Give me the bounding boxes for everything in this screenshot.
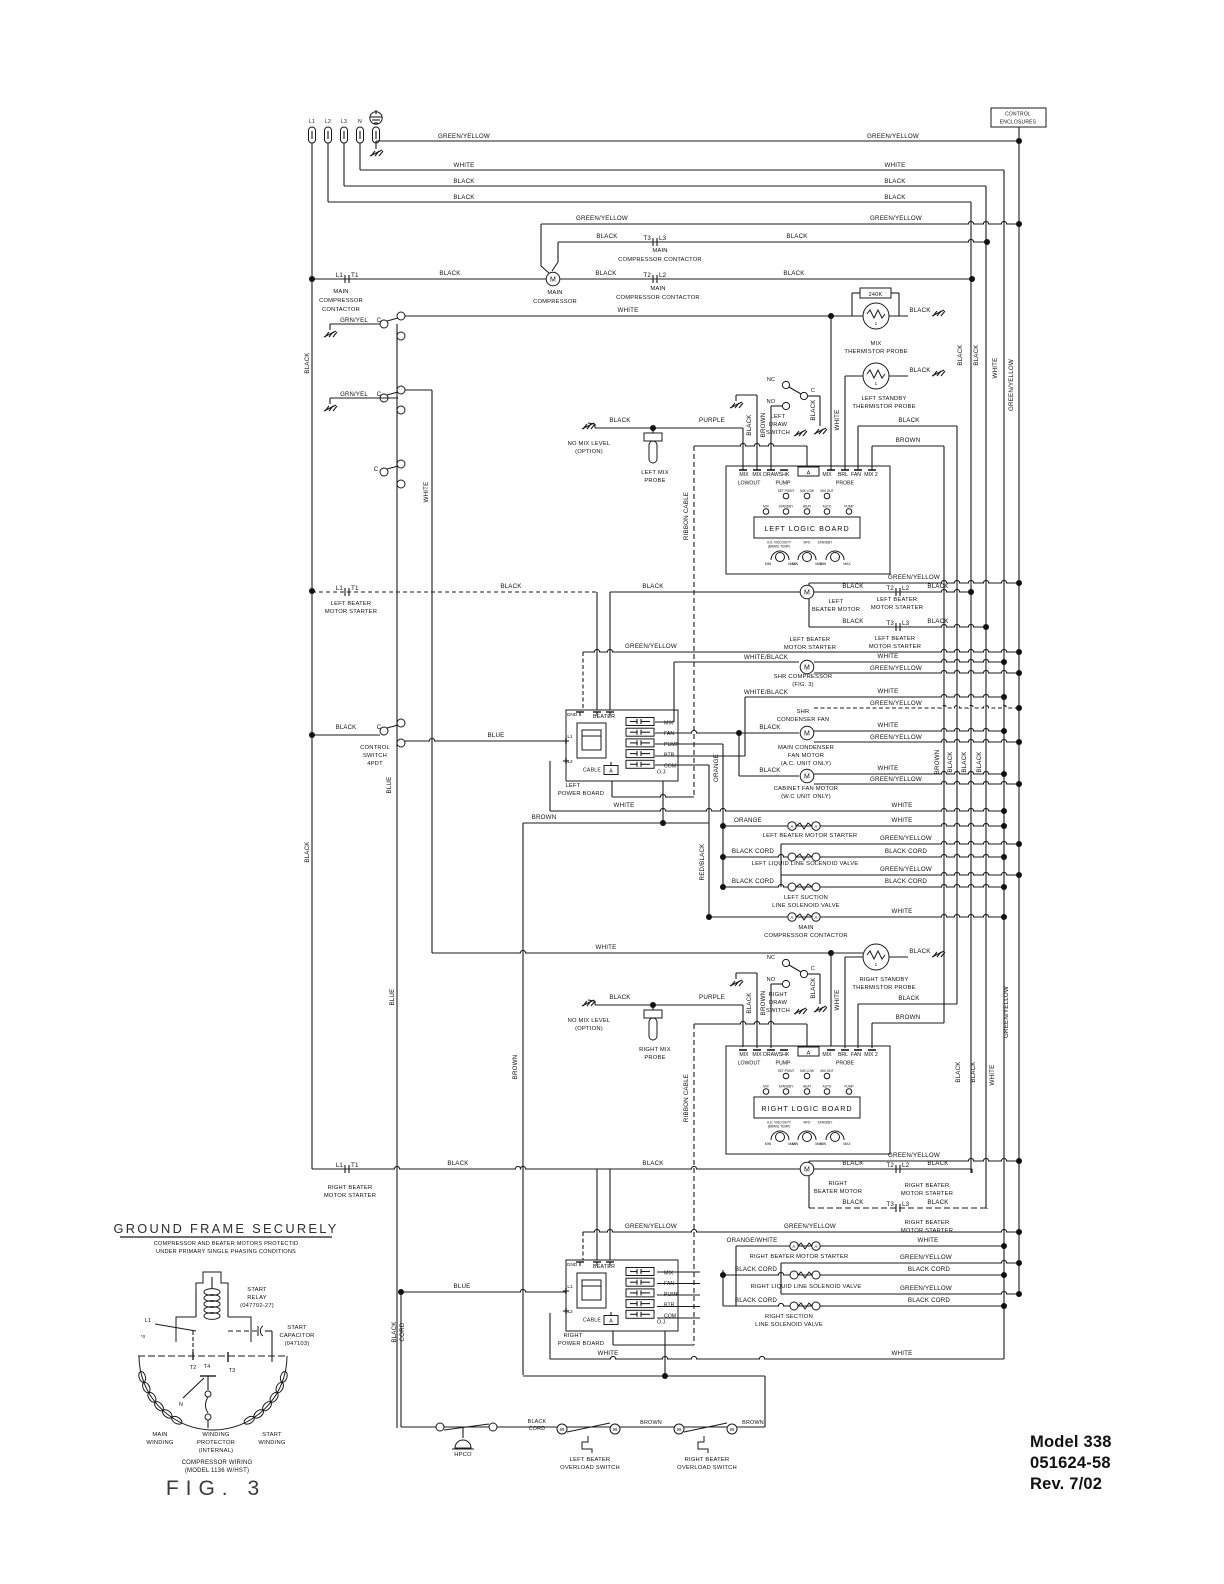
- svg-text:M: M: [804, 665, 810, 672]
- svg-text:T2: T2: [190, 1365, 197, 1371]
- svg-text:T4: T4: [204, 1364, 211, 1370]
- svg-text:COMPRESSOR WIRING: COMPRESSOR WIRING: [182, 1460, 253, 1466]
- svg-text:WHITE: WHITE: [454, 162, 475, 169]
- svg-text:LOWOUT: LOWOUT: [738, 1061, 762, 1067]
- svg-text:99: 99: [677, 1427, 682, 1432]
- svg-text:RIGHT BEATER: RIGHT BEATER: [685, 1457, 730, 1463]
- svg-text:MAIN: MAIN: [798, 925, 813, 931]
- svg-text:T1: T1: [351, 1162, 359, 1169]
- svg-text:BLACK: BLACK: [842, 618, 864, 625]
- svg-text:WHITE: WHITE: [596, 944, 617, 951]
- svg-text:COMPRESSOR CONTACTOR: COMPRESSOR CONTACTOR: [618, 257, 702, 263]
- svg-text:COM: COM: [664, 763, 676, 769]
- svg-text:LEFT: LEFT: [829, 599, 844, 605]
- svg-text:MIX OUT: MIX OUT: [820, 489, 833, 493]
- svg-text:M: M: [550, 277, 556, 284]
- svg-text:HEAT: HEAT: [803, 1085, 811, 1089]
- svg-text:(BRAKE TEMP): (BRAKE TEMP): [768, 1125, 791, 1129]
- svg-text:BLACK: BLACK: [336, 725, 357, 731]
- svg-text:BLACK: BLACK: [898, 417, 920, 424]
- svg-text:MOTOR STARTER: MOTOR STARTER: [869, 644, 921, 650]
- svg-text:BLACK: BLACK: [759, 724, 781, 731]
- svg-text:MOTOR STARTER: MOTOR STARTER: [324, 1193, 376, 1199]
- svg-text:ENCLOSURES: ENCLOSURES: [1000, 120, 1037, 126]
- svg-text:CABLE: CABLE: [583, 1318, 601, 1324]
- svg-text:C: C: [374, 467, 379, 473]
- svg-text:MOTOR STARTER: MOTOR STARTER: [325, 609, 377, 615]
- svg-text:BLACK: BLACK: [746, 414, 753, 436]
- svg-text:L1: L1: [145, 1318, 152, 1324]
- svg-text:N: N: [179, 1402, 183, 1408]
- svg-text:ORANGE: ORANGE: [713, 754, 720, 782]
- svg-text:LEFT LOGIC BOARD: LEFT LOGIC BOARD: [764, 524, 849, 533]
- svg-text:HPCO: HPCO: [454, 1452, 472, 1458]
- svg-text:A: A: [609, 1319, 613, 1325]
- svg-text:GREEN/YELLOW: GREEN/YELLOW: [625, 1223, 677, 1230]
- svg-text:(FIG. 3): (FIG. 3): [792, 682, 814, 688]
- svg-text:RIGHT LOGIC BOARD: RIGHT LOGIC BOARD: [761, 1104, 852, 1113]
- svg-text:MIN: MIN: [792, 562, 799, 566]
- svg-text:GND: GND: [567, 1262, 578, 1268]
- svg-text:MIX: MIX: [763, 1085, 770, 1089]
- svg-text:BLACK: BLACK: [528, 1419, 547, 1425]
- svg-text:START: START: [247, 1287, 267, 1293]
- svg-text:RIGHT MIX: RIGHT MIX: [639, 1047, 671, 1053]
- svg-text:CAPACITOR: CAPACITOR: [279, 1333, 314, 1339]
- svg-text:BLACK CORD: BLACK CORD: [732, 878, 775, 885]
- svg-text:MAIN: MAIN: [333, 289, 348, 295]
- svg-text:THERMISTOR PROBE: THERMISTOR PROBE: [852, 985, 915, 991]
- svg-text:WHITE: WHITE: [423, 482, 430, 503]
- svg-text:WHITE: WHITE: [989, 1065, 996, 1086]
- svg-text:T2: T2: [886, 1162, 894, 1169]
- svg-text:MIN: MIN: [820, 562, 827, 566]
- svg-text:WHITE: WHITE: [598, 1350, 619, 1357]
- svg-text:CONTROL: CONTROL: [1005, 112, 1031, 118]
- svg-text:BROWN: BROWN: [742, 1420, 764, 1426]
- svg-text:GRN/YEL: GRN/YEL: [340, 318, 368, 324]
- svg-text:(A.C. UNIT ONLY): (A.C. UNIT ONLY): [781, 761, 831, 767]
- svg-text:CABLE: CABLE: [583, 768, 601, 774]
- svg-text:LINE SOLENOID VALVE: LINE SOLENOID VALVE: [772, 903, 840, 909]
- svg-text:MIX: MIX: [763, 505, 770, 509]
- svg-text:BLACK: BLACK: [783, 270, 805, 277]
- svg-text:PROBE: PROBE: [836, 1061, 855, 1067]
- svg-text:(047702-27): (047702-27): [240, 1303, 274, 1309]
- svg-text:CORD: CORD: [399, 1322, 406, 1341]
- svg-text:GREEN/YELLOW: GREEN/YELLOW: [870, 734, 922, 741]
- svg-text:UNDER PRIMARY SINGLE PHASING C: UNDER PRIMARY SINGLE PHASING CONDITIONS: [156, 1249, 296, 1255]
- svg-text:MIX: MIX: [664, 1271, 674, 1277]
- svg-text:A: A: [807, 471, 811, 477]
- svg-text:LEFT STANDBY: LEFT STANDBY: [861, 396, 906, 402]
- svg-text:THERMISTOR PROBE: THERMISTOR PROBE: [844, 349, 907, 355]
- svg-text:BLACK: BLACK: [447, 1160, 469, 1167]
- svg-text:BLACK: BLACK: [909, 948, 931, 955]
- svg-text:N: N: [358, 119, 362, 125]
- svg-text:LEFT BEATER: LEFT BEATER: [570, 1457, 611, 1463]
- svg-text:FAN: FAN: [851, 472, 861, 478]
- svg-text:DRAW: DRAW: [763, 1052, 779, 1058]
- svg-text:WHITE/BLACK: WHITE/BLACK: [744, 689, 789, 696]
- svg-text:START: START: [262, 1432, 282, 1438]
- svg-text:SHK: SHK: [779, 1052, 790, 1058]
- svg-text:BROWN: BROWN: [896, 437, 921, 444]
- svg-text:GREEN/YELLOW: GREEN/YELLOW: [625, 643, 677, 650]
- svg-text:BROWN: BROWN: [532, 814, 557, 821]
- svg-text:FAN MOTOR: FAN MOTOR: [788, 753, 824, 759]
- svg-text:BLACK: BLACK: [596, 233, 618, 240]
- svg-text:MIX: MIX: [739, 1052, 749, 1058]
- svg-text:FIG. 3: FIG. 3: [166, 1477, 266, 1500]
- svg-text:C: C: [377, 725, 382, 731]
- svg-text:GREEN/YELLOW: GREEN/YELLOW: [900, 1254, 952, 1261]
- svg-text:GREEN/YELLOW: GREEN/YELLOW: [888, 1152, 940, 1159]
- svg-text:BLACK: BLACK: [810, 399, 817, 421]
- svg-text:L3: L3: [902, 620, 910, 627]
- svg-text:STANDBY: STANDBY: [779, 505, 795, 509]
- svg-text:RIGHT BEATER MOTOR STARTER: RIGHT BEATER MOTOR STARTER: [750, 1254, 849, 1260]
- svg-text:BEATER: BEATER: [593, 1264, 615, 1270]
- svg-text:MOTOR STARTER: MOTOR STARTER: [901, 1228, 953, 1234]
- svg-text:WHITE: WHITE: [834, 990, 841, 1011]
- svg-text:BLACK: BLACK: [884, 178, 906, 185]
- svg-text:COMPRESSOR: COMPRESSOR: [533, 299, 577, 305]
- svg-text:M: M: [804, 731, 810, 738]
- svg-text:(INTERNAL): (INTERNAL): [199, 1448, 234, 1454]
- svg-text:BLACK: BLACK: [609, 994, 631, 1001]
- svg-text:GREEN/YELLOW: GREEN/YELLOW: [870, 700, 922, 707]
- svg-text:BRL: BRL: [838, 472, 848, 478]
- svg-text:WHITE: WHITE: [892, 817, 913, 824]
- svg-text:RED/BLACK: RED/BLACK: [699, 843, 706, 881]
- svg-text:L1: L1: [336, 1162, 344, 1169]
- svg-text:WINDING: WINDING: [202, 1432, 229, 1438]
- svg-text:LEFT BEATER: LEFT BEATER: [790, 637, 831, 643]
- svg-text:T3: T3: [886, 620, 894, 627]
- svg-text:COMPRESSOR AND BEATER MOTORS: COMPRESSOR AND BEATER MOTORS PROTECTID: [154, 1241, 298, 1247]
- svg-text:BLACK: BLACK: [609, 417, 631, 424]
- svg-text:L2: L2: [567, 1309, 573, 1315]
- svg-text:BLACK: BLACK: [976, 751, 983, 773]
- svg-text:BLACK: BLACK: [642, 1160, 664, 1167]
- svg-text:BLACK CORD: BLACK CORD: [735, 1297, 778, 1304]
- svg-text:RIBBON CABLE: RIBBON CABLE: [683, 492, 690, 540]
- svg-text:BLACK: BLACK: [884, 194, 906, 201]
- svg-text:GRN/YEL: GRN/YEL: [340, 392, 368, 398]
- svg-text:HEAT: HEAT: [803, 505, 811, 509]
- svg-text:T3: T3: [886, 1201, 894, 1208]
- svg-text:ORANGE/WHITE: ORANGE/WHITE: [727, 1237, 778, 1244]
- svg-text:BLACK: BLACK: [642, 583, 664, 590]
- svg-text:A: A: [609, 769, 613, 775]
- svg-text:MAIN: MAIN: [152, 1432, 167, 1438]
- svg-text:GROUND FRAME SECURELY: GROUND FRAME SECURELY: [113, 1221, 338, 1236]
- svg-text:GREEN/YELLOW: GREEN/YELLOW: [870, 776, 922, 783]
- svg-text:T1: T1: [351, 272, 359, 279]
- svg-text:LINE SOLENOID VALVE: LINE SOLENOID VALVE: [755, 1322, 823, 1328]
- svg-text:AUTO: AUTO: [823, 505, 832, 509]
- svg-text:MOTOR STARTER: MOTOR STARTER: [901, 1191, 953, 1197]
- svg-text:WHITE: WHITE: [885, 162, 906, 169]
- svg-text:RIGHT STANDBY: RIGHT STANDBY: [859, 977, 908, 983]
- svg-text:T3: T3: [643, 235, 651, 242]
- svg-text:L2: L2: [902, 1162, 910, 1169]
- svg-text:BLACK: BLACK: [970, 1061, 977, 1083]
- svg-text:POWER BOARD: POWER BOARD: [558, 791, 604, 797]
- svg-text:M: M: [804, 1167, 810, 1174]
- svg-text:RIGHT: RIGHT: [768, 992, 787, 998]
- svg-text:LEFT LIQUID LINE SOLENOID VALV: LEFT LIQUID LINE SOLENOID VALVE: [752, 861, 859, 867]
- svg-text:(OPTION): (OPTION): [575, 1026, 603, 1032]
- svg-text:A: A: [807, 1051, 811, 1057]
- svg-text:BLACK: BLACK: [842, 1160, 864, 1167]
- svg-text:OVERLOAD SWITCH: OVERLOAD SWITCH: [560, 1465, 620, 1471]
- svg-text:CONTROL: CONTROL: [360, 745, 390, 751]
- svg-text:WHITE: WHITE: [878, 688, 899, 695]
- svg-text:PROBE: PROBE: [836, 481, 855, 487]
- svg-text:MIX: MIX: [752, 472, 762, 478]
- svg-text:WHITE: WHITE: [992, 358, 999, 379]
- svg-text:BEATER MOTOR: BEATER MOTOR: [812, 607, 860, 613]
- svg-text:PUMP: PUMP: [776, 481, 792, 487]
- svg-text:C: C: [811, 388, 815, 394]
- svg-text:BLACK: BLACK: [786, 233, 808, 240]
- svg-text:RIGHT BEATER: RIGHT BEATER: [905, 1220, 950, 1226]
- svg-text:Rev. 7/02: Rev. 7/02: [1030, 1475, 1102, 1493]
- svg-text:CONTACTOR: CONTACTOR: [322, 307, 360, 313]
- svg-text:GREEN/YELLOW: GREEN/YELLOW: [784, 1223, 836, 1230]
- svg-text:SHR: SHR: [797, 709, 810, 715]
- svg-text:BROWN: BROWN: [934, 750, 941, 775]
- svg-text:MIX: MIX: [822, 1052, 832, 1058]
- svg-text:SWITCH: SWITCH: [766, 1008, 790, 1014]
- svg-text:FAN: FAN: [664, 1281, 674, 1287]
- svg-text:CORD: CORD: [529, 1426, 546, 1432]
- svg-text:NC: NC: [767, 955, 775, 961]
- svg-text:GREEN/YELLOW: GREEN/YELLOW: [438, 133, 490, 140]
- svg-text:(MODEL 1136 W/HST): (MODEL 1136 W/HST): [185, 1468, 249, 1474]
- svg-text:BLUE: BLUE: [488, 732, 505, 739]
- svg-text:WHITE: WHITE: [892, 1350, 913, 1357]
- svg-text:T2: T2: [643, 272, 651, 279]
- svg-text:LEFT SUCTION: LEFT SUCTION: [784, 895, 828, 901]
- svg-text:BLACK: BLACK: [927, 1199, 949, 1206]
- svg-text:BLUE: BLUE: [454, 1283, 471, 1290]
- svg-text:WHITE: WHITE: [918, 1237, 939, 1244]
- svg-text:BLACK: BLACK: [973, 344, 980, 366]
- svg-text:MIX: MIX: [871, 341, 882, 347]
- svg-text:BLACK: BLACK: [391, 1321, 398, 1343]
- svg-text:GREEN/YELLOW: GREEN/YELLOW: [880, 866, 932, 873]
- svg-text:A: A: [814, 915, 817, 920]
- svg-text:PROBE: PROBE: [644, 1055, 665, 1061]
- svg-text:L1: L1: [336, 272, 344, 279]
- svg-text:C: C: [377, 392, 382, 398]
- svg-text:BLACK: BLACK: [746, 992, 753, 1014]
- svg-text:A: A: [814, 1244, 817, 1249]
- svg-text:BLACK: BLACK: [927, 618, 949, 625]
- svg-text:DRAW: DRAW: [769, 422, 788, 428]
- svg-text:WHITE: WHITE: [892, 802, 913, 809]
- svg-text:START: START: [287, 1325, 307, 1331]
- svg-text:BLACK: BLACK: [304, 841, 311, 863]
- svg-text:NO: NO: [767, 977, 776, 983]
- svg-text:(OPTION): (OPTION): [575, 449, 603, 455]
- svg-text:SHK: SHK: [779, 472, 790, 478]
- svg-text:MIN: MIN: [765, 562, 772, 566]
- svg-text:BLACK CORD: BLACK CORD: [908, 1266, 951, 1273]
- svg-text:RIGHT SECTION: RIGHT SECTION: [765, 1314, 813, 1320]
- svg-text:BLACK: BLACK: [898, 995, 920, 1002]
- svg-text:MIX 2: MIX 2: [864, 472, 878, 478]
- svg-text:NO: NO: [767, 399, 776, 405]
- svg-text:LEFT: LEFT: [771, 414, 786, 420]
- svg-text:MFD: MFD: [804, 541, 812, 545]
- svg-text:BLACK CORD: BLACK CORD: [885, 878, 928, 885]
- svg-text:SET POINT: SET POINT: [778, 1069, 795, 1073]
- svg-text:PROBE: PROBE: [644, 478, 665, 484]
- svg-text:NC: NC: [767, 377, 775, 383]
- svg-text:MAIN: MAIN: [650, 286, 665, 292]
- svg-text:GREEN/YELLOW: GREEN/YELLOW: [888, 574, 940, 581]
- svg-text:BROWN: BROWN: [896, 1014, 921, 1021]
- svg-text:T1: T1: [351, 585, 359, 592]
- svg-text:C: C: [377, 318, 382, 324]
- svg-text:MIX OUT: MIX OUT: [820, 1069, 833, 1073]
- svg-text:L2: L2: [325, 119, 331, 125]
- svg-text:GREEN/YELLOW: GREEN/YELLOW: [1003, 986, 1010, 1038]
- svg-text:A: A: [792, 1244, 795, 1249]
- svg-text:LEFT BEATER: LEFT BEATER: [877, 597, 918, 603]
- svg-text:WHITE: WHITE: [618, 307, 639, 314]
- svg-text:RIGHT: RIGHT: [563, 1333, 582, 1339]
- svg-text:99: 99: [613, 1427, 618, 1432]
- svg-text:O.J.: O.J.: [657, 1320, 667, 1326]
- svg-text:MIX: MIX: [739, 472, 749, 478]
- svg-text:L3: L3: [659, 235, 667, 242]
- svg-text:M: M: [804, 774, 810, 781]
- svg-text:4PDT: 4PDT: [367, 761, 383, 767]
- svg-text:BLACK: BLACK: [453, 178, 475, 185]
- svg-text:WHITE: WHITE: [878, 722, 899, 729]
- svg-text:T2: T2: [886, 585, 894, 592]
- svg-text:L1: L1: [567, 1284, 573, 1290]
- svg-text:BLACK: BLACK: [927, 1160, 949, 1167]
- svg-text:OVERLOAD SWITCH: OVERLOAD SWITCH: [677, 1465, 737, 1471]
- svg-text:GREEN/YELLOW: GREEN/YELLOW: [1008, 359, 1015, 411]
- svg-text:MIN: MIN: [765, 1142, 772, 1146]
- svg-text:MFD: MFD: [804, 1121, 812, 1125]
- svg-text:1: 1: [875, 962, 878, 967]
- svg-text:PURPLE: PURPLE: [699, 417, 725, 424]
- svg-text:COMPRESSOR CONTACTOR: COMPRESSOR CONTACTOR: [616, 295, 700, 301]
- svg-text:Model 338: Model 338: [1030, 1433, 1112, 1451]
- svg-text:L1: L1: [567, 734, 573, 740]
- svg-text:BROWN: BROWN: [512, 1055, 519, 1080]
- svg-text:MIX: MIX: [752, 1052, 762, 1058]
- svg-text:BLACK: BLACK: [595, 270, 617, 277]
- svg-text:DRAW: DRAW: [769, 1000, 788, 1006]
- svg-text:GREEN/YELLOW: GREEN/YELLOW: [880, 835, 932, 842]
- svg-text:(W.C UNIT ONLY): (W.C UNIT ONLY): [781, 794, 831, 800]
- svg-text:BLACK: BLACK: [759, 767, 781, 774]
- svg-text:BLACK: BLACK: [927, 583, 949, 590]
- svg-text:WHITE: WHITE: [878, 765, 899, 772]
- svg-text:MOTOR STARTER: MOTOR STARTER: [871, 605, 923, 611]
- svg-text:BLACK: BLACK: [810, 977, 817, 999]
- svg-text:BLACK: BLACK: [842, 1199, 864, 1206]
- svg-text:RIGHT LIQUID LINE SOLENOID VAL: RIGHT LIQUID LINE SOLENOID VALVE: [751, 1284, 862, 1290]
- svg-text:GREEN/YELLOW: GREEN/YELLOW: [870, 665, 922, 672]
- svg-text:BRL: BRL: [838, 1052, 848, 1058]
- svg-text:LEFT BEATER MOTOR STARTER: LEFT BEATER MOTOR STARTER: [763, 833, 858, 839]
- svg-text:MIX: MIX: [664, 721, 674, 727]
- svg-text:FAN: FAN: [664, 731, 674, 737]
- svg-text:BLACK: BLACK: [439, 270, 461, 277]
- svg-text:GND: GND: [567, 712, 578, 718]
- svg-text:BLUE: BLUE: [389, 989, 396, 1006]
- svg-text:L2: L2: [902, 585, 910, 592]
- svg-text:PROTECTOR: PROTECTOR: [197, 1440, 235, 1446]
- svg-text:CABINET FAN MOTOR: CABINET FAN MOTOR: [774, 786, 838, 792]
- svg-text:MAIN CONDENSER: MAIN CONDENSER: [778, 745, 834, 751]
- svg-text:NO MIX LEVEL: NO MIX LEVEL: [568, 441, 611, 447]
- svg-text:GREEN/YELLOW: GREEN/YELLOW: [870, 215, 922, 222]
- svg-text:240K: 240K: [869, 292, 883, 298]
- svg-text:A: A: [790, 824, 793, 829]
- svg-text:BLACK: BLACK: [304, 352, 311, 374]
- svg-text:STANDBY: STANDBY: [779, 1085, 795, 1089]
- svg-text:LEFT MIX: LEFT MIX: [641, 470, 669, 476]
- svg-text:O.J.: O.J.: [657, 770, 667, 776]
- svg-text:MIX LOW: MIX LOW: [800, 489, 814, 493]
- svg-text:BROWN: BROWN: [640, 1420, 662, 1426]
- svg-text:MIX: MIX: [822, 472, 832, 478]
- svg-text:MIX LOW: MIX LOW: [800, 1069, 814, 1073]
- svg-text:SWITCH: SWITCH: [766, 430, 790, 436]
- svg-text:SWITCH: SWITCH: [363, 753, 387, 759]
- svg-text:1: 1: [875, 381, 878, 386]
- svg-text:PUMP: PUMP: [776, 1061, 792, 1067]
- svg-text:PUMP: PUMP: [664, 742, 680, 748]
- svg-text:99: 99: [560, 1427, 565, 1432]
- svg-text:L2: L2: [567, 759, 573, 765]
- svg-text:*0: *0: [141, 1334, 146, 1339]
- svg-text:LOWOUT: LOWOUT: [738, 481, 762, 487]
- svg-text:99: 99: [730, 1427, 735, 1432]
- svg-text:BLACK: BLACK: [453, 194, 475, 201]
- svg-text:BLACK: BLACK: [961, 751, 968, 773]
- svg-text:BLACK: BLACK: [909, 367, 931, 374]
- svg-text:FAN: FAN: [851, 1052, 861, 1058]
- svg-text:LEFT: LEFT: [566, 783, 581, 789]
- svg-text:PUMP: PUMP: [844, 1085, 853, 1089]
- svg-text:(BRAKE TEMP): (BRAKE TEMP): [768, 545, 791, 549]
- svg-text:PUMP: PUMP: [844, 505, 853, 509]
- svg-text:WHITE: WHITE: [892, 908, 913, 915]
- svg-text:BLACK: BLACK: [842, 583, 864, 590]
- svg-text:WINDING: WINDING: [146, 1440, 173, 1446]
- svg-text:POWER BOARD: POWER BOARD: [558, 1341, 604, 1347]
- svg-text:BLACK CORD: BLACK CORD: [732, 848, 775, 855]
- svg-text:A: A: [790, 915, 793, 920]
- svg-text:COMPRESSOR: COMPRESSOR: [319, 298, 363, 304]
- svg-text:RIBBON CABLE: RIBBON CABLE: [683, 1074, 690, 1122]
- svg-text:BLUE: BLUE: [386, 777, 393, 794]
- svg-text:RELAY: RELAY: [247, 1295, 267, 1301]
- svg-text:STANDBY: STANDBY: [818, 1121, 834, 1125]
